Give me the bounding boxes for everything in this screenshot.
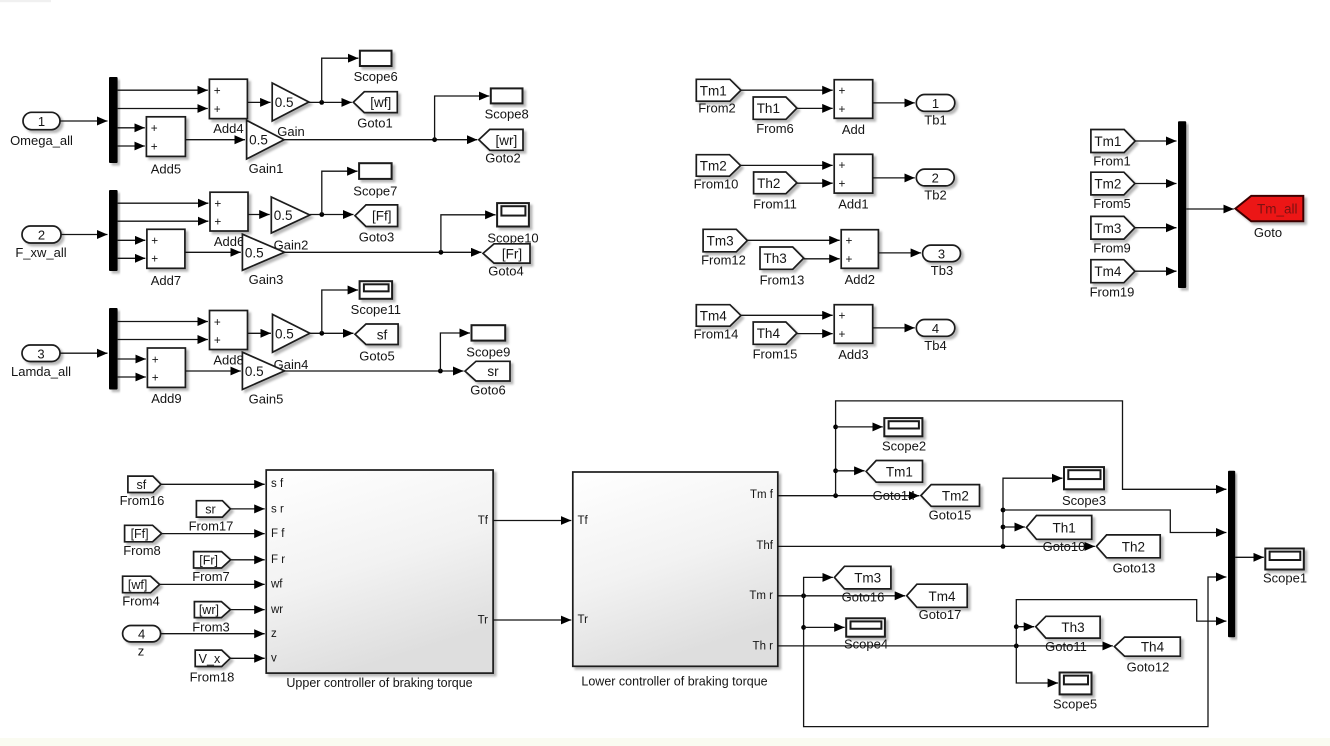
wire demux to Add7 in2 xyxy=(118,257,146,259)
wire Tmr to Goto17 xyxy=(778,593,905,598)
svg-text:Tm2: Tm2 xyxy=(1094,177,1121,192)
wire Thf junction to Scope3 xyxy=(1001,478,1063,546)
svg-text:Th3: Th3 xyxy=(764,251,787,266)
svg-text:z: z xyxy=(271,628,277,640)
svg-text:Goto1: Goto1 xyxy=(357,116,392,131)
inport Lamda_all (3) xyxy=(11,345,71,379)
svg-text:Goto2: Goto2 xyxy=(485,151,520,166)
svg-text:V_x: V_x xyxy=(199,652,221,666)
svg-text:Tb2: Tb2 xyxy=(924,188,946,203)
svg-text:Tm3: Tm3 xyxy=(1094,221,1121,236)
svg-text:Goto12: Goto12 xyxy=(1127,660,1170,675)
gain Gain4 xyxy=(273,314,310,372)
svg-text:Add6: Add6 xyxy=(214,234,244,249)
goto Goto3 [[Ff]] xyxy=(355,205,398,245)
wire From19 to mux xyxy=(1135,270,1177,272)
goto Goto4 [[Fr]] xyxy=(483,244,530,279)
wire From12 to Add2 xyxy=(747,239,839,241)
wire From15 to Add3 xyxy=(797,333,833,335)
wire z port to z xyxy=(161,633,265,635)
svg-text:Tm3: Tm3 xyxy=(707,234,734,249)
svg-text:[Ff]: [Ff] xyxy=(372,209,392,224)
svg-text:Scope7: Scope7 xyxy=(353,184,397,199)
from From4 [[wf]] xyxy=(122,576,160,608)
wire Tr upper to lower xyxy=(493,619,571,621)
wire Tmr junction to Goto16 xyxy=(804,577,833,595)
svg-text:v: v xyxy=(271,653,277,665)
goto Goto6 [sr] xyxy=(465,361,510,397)
svg-text:From16: From16 xyxy=(120,493,165,508)
svg-text:Tm4: Tm4 xyxy=(700,308,727,323)
wire demux to Add6 in2 xyxy=(118,220,209,222)
svg-text:Tr: Tr xyxy=(478,615,489,627)
wire Tf upper to lower xyxy=(493,520,571,522)
svg-text:Goto15: Goto15 xyxy=(929,508,972,523)
svg-text:Th2: Th2 xyxy=(757,176,780,191)
gain Gain1 xyxy=(247,120,285,176)
svg-text:Upper controller of braking to: Upper controller of braking torque xyxy=(286,676,472,690)
svg-text:Lower controller of braking to: Lower controller of braking torque xyxy=(581,675,767,689)
mux Mux (Scope1) xyxy=(1228,471,1235,638)
from From18 [V_x] xyxy=(190,650,235,684)
goto Goto12 [Th4] xyxy=(1114,637,1180,674)
svg-text:From14: From14 xyxy=(694,327,739,342)
svg-text:1: 1 xyxy=(932,96,939,111)
wire From10 to Add1 xyxy=(741,164,833,166)
from From3 [[wr]] xyxy=(192,602,230,635)
svg-text:[Ff]: [Ff] xyxy=(131,527,149,541)
svg-text:Goto5: Goto5 xyxy=(359,349,394,364)
wire Add2 to Tb3 xyxy=(878,252,921,254)
svg-text:[Fr]: [Fr] xyxy=(199,553,218,567)
from From7 [[Fr]] xyxy=(192,552,230,584)
wire From18 to v xyxy=(230,657,265,659)
wire From4 to wf xyxy=(160,583,265,585)
svg-text:2: 2 xyxy=(38,228,45,243)
scope Scope8 xyxy=(485,88,529,121)
wire demux to Add5 in1 xyxy=(118,127,145,129)
svg-text:Th r: Th r xyxy=(753,640,774,652)
inport z (4) xyxy=(123,626,161,659)
svg-text:Goto4: Goto4 xyxy=(488,264,523,279)
sum Add1 xyxy=(834,154,873,211)
svg-text:Tm f: Tm f xyxy=(750,489,774,501)
svg-text:+: + xyxy=(214,315,221,329)
svg-text:From11: From11 xyxy=(753,197,797,212)
svg-text:+: + xyxy=(839,102,846,116)
svg-text:0.5: 0.5 xyxy=(249,133,268,148)
svg-text:Th3: Th3 xyxy=(1061,620,1084,635)
wire Thr to Goto12 xyxy=(778,644,1113,649)
wire From16 to sf xyxy=(161,483,265,485)
svg-text:+: + xyxy=(151,139,158,153)
svg-text:Add5: Add5 xyxy=(151,162,181,177)
inport Tb1 (1) xyxy=(916,95,955,128)
wire junction to mux in2 xyxy=(1003,510,1226,533)
inport F_xw_all (2) xyxy=(15,226,66,260)
svg-text:Goto17: Goto17 xyxy=(919,607,962,622)
svg-text:From10: From10 xyxy=(694,177,739,192)
svg-text:Tb4: Tb4 xyxy=(924,338,946,353)
wire Gain5 to Goto6 xyxy=(285,369,464,374)
wire Gain4 to Goto5 xyxy=(310,331,354,336)
scope Scope2 (open display) xyxy=(882,418,926,453)
sum Add9 xyxy=(147,348,185,406)
from From11 [Th2] xyxy=(753,172,797,212)
from From2 [Tm1] xyxy=(696,79,741,115)
svg-text:Omega_all: Omega_all xyxy=(10,133,73,148)
svg-text:Goto6: Goto6 xyxy=(470,383,505,398)
wire demux to Add5 in2 xyxy=(118,145,145,147)
wire From17 to sr xyxy=(230,508,264,510)
svg-text:Th2: Th2 xyxy=(1122,539,1145,554)
svg-text:From19: From19 xyxy=(1090,285,1135,300)
svg-text:Scope6: Scope6 xyxy=(354,69,398,84)
wire Thf to Goto13 xyxy=(778,544,1095,549)
wire Add7 to Gain3 xyxy=(185,251,241,253)
svg-text:s r: s r xyxy=(271,503,284,515)
from From16 [sf] xyxy=(120,476,165,508)
svg-text:From6: From6 xyxy=(756,121,794,136)
svg-text:From15: From15 xyxy=(753,347,798,362)
svg-text:0.5: 0.5 xyxy=(275,95,294,110)
wire demux to Add9 in1 xyxy=(118,358,146,360)
svg-text:sf: sf xyxy=(137,478,147,492)
svg-text:sf: sf xyxy=(377,327,388,342)
goto Goto [Tm_all] xyxy=(1235,196,1303,240)
svg-text:+: + xyxy=(152,370,159,384)
wire Add8 to Gain4 xyxy=(248,332,271,334)
svg-text:Add9: Add9 xyxy=(151,391,181,406)
sum Add2 xyxy=(841,230,878,287)
svg-text:Scope4: Scope4 xyxy=(844,637,888,652)
svg-text:Goto3: Goto3 xyxy=(359,230,394,245)
svg-text:Goto16: Goto16 xyxy=(842,590,885,605)
wire Omega_all to demux xyxy=(60,120,108,122)
svg-text:Tm2: Tm2 xyxy=(700,158,727,173)
demux Demux (Lamda_all) xyxy=(109,308,118,390)
scope Scope7 xyxy=(353,163,397,198)
from From14 [Tm4] xyxy=(694,305,741,342)
wire junction to Goto14 xyxy=(836,470,865,472)
goto Goto10 [Th1] xyxy=(1026,516,1091,555)
demux Demux (Omega_all) xyxy=(109,77,118,163)
svg-text:Tm4: Tm4 xyxy=(1094,264,1121,279)
svg-text:0.5: 0.5 xyxy=(275,326,294,341)
svg-text:[wr]: [wr] xyxy=(199,603,219,617)
svg-text:+: + xyxy=(151,234,158,248)
svg-text:[wf]: [wf] xyxy=(128,578,147,592)
svg-text:+: + xyxy=(214,215,221,229)
svg-text:sr: sr xyxy=(487,364,499,379)
from From17 [sr] xyxy=(189,501,234,534)
wire junction to Scope8 xyxy=(435,96,490,140)
svg-text:Thf: Thf xyxy=(756,540,773,552)
scope Scope3 (open display) xyxy=(1062,467,1106,508)
wire Tmf to Goto15 xyxy=(778,493,920,498)
svg-text:Scope11: Scope11 xyxy=(351,302,401,317)
svg-text:4: 4 xyxy=(138,627,145,642)
wire demux to Add8 in2 xyxy=(118,339,208,341)
scope Scope5 (open display) xyxy=(1053,673,1097,712)
scope Scope9 xyxy=(466,325,510,359)
from From13 [Th3] xyxy=(760,247,805,288)
sum Add7 xyxy=(147,229,185,288)
goto Goto5 [sf] xyxy=(355,324,398,364)
svg-text:+: + xyxy=(152,352,159,366)
wire Add4 to Gain xyxy=(247,101,270,103)
svg-text:+: + xyxy=(839,158,846,172)
svg-text:Th4: Th4 xyxy=(757,326,781,341)
svg-text:Add1: Add1 xyxy=(838,197,868,212)
wire From8 to Ff xyxy=(162,533,265,535)
svg-text:Add7: Add7 xyxy=(151,273,181,288)
svg-text:Add8: Add8 xyxy=(213,353,243,368)
sum Add4 xyxy=(209,79,247,136)
svg-text:0.5: 0.5 xyxy=(274,208,293,223)
scope Scope4 (open display) xyxy=(844,618,888,651)
svg-text:From4: From4 xyxy=(122,594,160,609)
wire Gain3 to Goto4 xyxy=(285,250,482,255)
svg-text:1: 1 xyxy=(38,114,45,129)
svg-text:Tm r: Tm r xyxy=(749,590,773,602)
svg-text:wf: wf xyxy=(270,579,283,591)
wire demux to Add8 in1 xyxy=(118,321,208,323)
from From19 [Tm4] xyxy=(1090,260,1135,300)
wire Gain1 to Goto2 xyxy=(284,137,477,142)
wire From1 to mux xyxy=(1135,140,1176,142)
from From15 [Th4] xyxy=(753,322,798,362)
wire junction to Scope10 xyxy=(441,215,496,253)
svg-text:Scope8: Scope8 xyxy=(485,107,529,122)
svg-text:+: + xyxy=(839,84,846,98)
goto Goto16 [Tm3] xyxy=(834,566,891,604)
wire From3 to wr xyxy=(230,609,264,611)
svg-text:From8: From8 xyxy=(123,543,161,558)
sum Add xyxy=(834,80,873,137)
svg-text:Gain: Gain xyxy=(277,124,304,139)
svg-text:+: + xyxy=(839,309,846,323)
subsystem Upper controller of braking torque xyxy=(266,470,493,690)
wire Thr junction down to Scope5 xyxy=(1016,646,1058,683)
svg-text:From3: From3 xyxy=(192,620,230,635)
svg-text:Add2: Add2 xyxy=(845,272,875,287)
svg-text:Tf: Tf xyxy=(478,515,489,527)
svg-text:Th1: Th1 xyxy=(1052,520,1075,535)
svg-text:Tb1: Tb1 xyxy=(924,113,946,128)
svg-text:Tm1: Tm1 xyxy=(886,464,913,479)
svg-text:F_xw_all: F_xw_all xyxy=(15,245,66,260)
svg-text:Tb3: Tb3 xyxy=(931,263,953,278)
svg-text:Scope5: Scope5 xyxy=(1053,697,1097,712)
wire From2 to Add xyxy=(741,89,833,91)
goto Goto11 [Th3] xyxy=(1036,616,1100,654)
wire F_xw_all to demux xyxy=(61,234,108,236)
svg-text:[Fr]: [Fr] xyxy=(502,246,522,261)
wire junction to Scope11 xyxy=(322,290,358,333)
wire From11 to Add1 xyxy=(797,182,833,184)
svg-text:Scope1: Scope1 xyxy=(1263,571,1307,586)
svg-text:Lamda_all: Lamda_all xyxy=(11,364,71,379)
mux Mux (Tm_all) xyxy=(1178,121,1186,288)
wire junction to Goto10 xyxy=(1003,526,1025,528)
svg-text:Tm3: Tm3 xyxy=(854,571,881,586)
wire Tmr junction down to mux in3 xyxy=(801,577,1226,727)
gain Gain5 xyxy=(242,352,284,406)
wire junction to Scope9 xyxy=(440,333,470,371)
svg-text:Tf: Tf xyxy=(578,515,589,527)
inport Tb3 (3) xyxy=(923,245,961,278)
canvas bottom band xyxy=(0,738,1330,746)
svg-text:Goto: Goto xyxy=(1254,225,1282,240)
svg-text:Scope3: Scope3 xyxy=(1062,493,1106,508)
svg-text:+: + xyxy=(839,177,846,191)
wire Add3 to Tb4 xyxy=(873,327,915,329)
wire junction to Scope7 xyxy=(322,171,358,214)
wire From6 to Add xyxy=(797,107,833,109)
sum Add8 xyxy=(210,311,248,368)
svg-text:sr: sr xyxy=(205,502,215,516)
sum Add5 xyxy=(146,117,185,177)
svg-text:Tm2: Tm2 xyxy=(942,488,969,503)
scope Scope10 (open display) xyxy=(487,203,538,245)
svg-text:[wf]: [wf] xyxy=(370,95,391,110)
svg-text:4: 4 xyxy=(932,321,939,336)
svg-text:Tr: Tr xyxy=(578,614,589,626)
goto Goto2 [[wr]] xyxy=(479,129,523,165)
from From6 [Th1] xyxy=(753,97,797,136)
svg-text:s f: s f xyxy=(271,478,284,490)
svg-text:Tm_all: Tm_all xyxy=(1257,202,1298,217)
wire From9 to mux xyxy=(1135,227,1177,229)
svg-text:From5: From5 xyxy=(1093,196,1131,211)
svg-text:Tm1: Tm1 xyxy=(700,83,727,98)
svg-text:0.5: 0.5 xyxy=(245,364,264,379)
goto Goto17 [Tm4] xyxy=(907,584,968,622)
gain Gain xyxy=(272,83,309,139)
wire Tmf junction up to mux xyxy=(833,401,1226,496)
wire From14 to Add3 xyxy=(741,314,833,316)
svg-text:3: 3 xyxy=(37,346,44,361)
wire demux to Add4 in1 xyxy=(118,89,208,91)
svg-text:+: + xyxy=(846,234,853,248)
inport Tb4 (4) xyxy=(916,320,955,354)
wire Lamda_all to demux xyxy=(60,352,108,354)
inport Tb2 (2) xyxy=(916,169,954,202)
svg-text:[wr]: [wr] xyxy=(496,133,518,148)
svg-text:Gain1: Gain1 xyxy=(249,161,284,176)
wire demux to Add4 in2 xyxy=(118,108,208,110)
svg-text:+: + xyxy=(839,327,846,341)
goto Goto1 [[wf]] xyxy=(353,92,397,131)
wire demux to Add6 in1 xyxy=(118,202,209,204)
scope Scope1 (open display) xyxy=(1263,549,1307,586)
scope Scope11 (open display) xyxy=(351,281,401,317)
svg-text:Gain5: Gain5 xyxy=(249,392,284,407)
svg-text:F r: F r xyxy=(271,554,285,566)
wire From13 to Add2 xyxy=(804,258,840,260)
svg-text:Add4: Add4 xyxy=(213,121,243,136)
svg-text:From1: From1 xyxy=(1093,154,1131,169)
svg-text:From2: From2 xyxy=(698,101,736,116)
wire junction to Scope4 xyxy=(804,626,845,628)
wire demux to Add9 in2 xyxy=(118,376,146,378)
goto Goto13 [Th2] xyxy=(1096,535,1160,576)
svg-text:2: 2 xyxy=(932,171,939,186)
svg-text:3: 3 xyxy=(938,246,945,261)
subsystem Lower controller of braking torque xyxy=(573,472,778,689)
svg-text:+: + xyxy=(214,333,221,347)
canvas edge artifact top-left xyxy=(0,0,51,2)
sum Add6 xyxy=(210,192,248,249)
inport Omega_all (1) xyxy=(10,112,73,148)
svg-text:z: z xyxy=(138,644,145,659)
wire Add to Tb1 xyxy=(873,102,915,104)
svg-text:+: + xyxy=(214,84,221,98)
wire mux to Scope1 xyxy=(1235,556,1264,558)
from From12 [Tm3] xyxy=(701,229,747,267)
wire Gain2 to Goto3 xyxy=(310,212,354,217)
svg-text:From18: From18 xyxy=(190,670,235,685)
svg-text:F f: F f xyxy=(271,528,285,540)
wire From5 to mux xyxy=(1135,183,1177,185)
svg-text:0.5: 0.5 xyxy=(245,245,264,260)
svg-text:+: + xyxy=(151,121,158,135)
svg-text:+: + xyxy=(846,252,853,266)
from From8 [[Ff]] xyxy=(123,525,161,558)
svg-text:Th1: Th1 xyxy=(757,101,780,116)
scope Scope6 xyxy=(354,51,398,84)
svg-text:From7: From7 xyxy=(192,569,230,584)
svg-text:From13: From13 xyxy=(760,273,805,288)
gain Gain2 xyxy=(271,197,310,253)
svg-text:Scope9: Scope9 xyxy=(466,345,510,360)
svg-text:wr: wr xyxy=(270,604,283,616)
wire Add1 to Tb2 xyxy=(873,177,915,179)
wire Add6 to Gain2 xyxy=(248,214,270,216)
from From5 [Tm2] xyxy=(1091,172,1135,211)
demux Demux (F_xw_all) xyxy=(109,190,118,271)
goto Goto15 [Tm2] xyxy=(921,485,980,523)
svg-text:Scope2: Scope2 xyxy=(882,439,926,454)
svg-text:Tm1: Tm1 xyxy=(1094,134,1121,149)
svg-text:+: + xyxy=(214,102,221,116)
svg-text:From12: From12 xyxy=(701,253,746,268)
svg-text:From17: From17 xyxy=(189,519,234,534)
svg-text:+: + xyxy=(151,252,158,266)
goto Goto14 [Tm1] xyxy=(866,461,922,504)
wire junction to Scope2 xyxy=(836,426,883,428)
wire mux to Goto (Tm_all) xyxy=(1186,208,1234,210)
wire From7 to Fr xyxy=(231,559,265,561)
from From9 [Tm3] xyxy=(1091,216,1135,255)
svg-text:Add3: Add3 xyxy=(838,347,868,362)
from From10 [Tm2] xyxy=(694,155,741,192)
wire Gain to Goto1 xyxy=(309,100,352,105)
sum Add3 xyxy=(834,305,873,362)
wire Add9 to Gain5 xyxy=(185,370,240,372)
svg-text:Th4: Th4 xyxy=(1141,640,1165,655)
wire demux to Add7 in1 xyxy=(118,239,146,241)
svg-text:Gain3: Gain3 xyxy=(249,272,284,287)
wire Thr junction up to mux in4 xyxy=(1014,600,1227,646)
svg-text:From9: From9 xyxy=(1093,241,1131,256)
svg-text:Goto13: Goto13 xyxy=(1113,561,1156,576)
wire Add5 to Gain1 xyxy=(185,139,245,141)
from From1 [Tm1] xyxy=(1091,130,1135,169)
svg-text:Add: Add xyxy=(842,122,865,137)
gain Gain3 xyxy=(242,234,284,287)
